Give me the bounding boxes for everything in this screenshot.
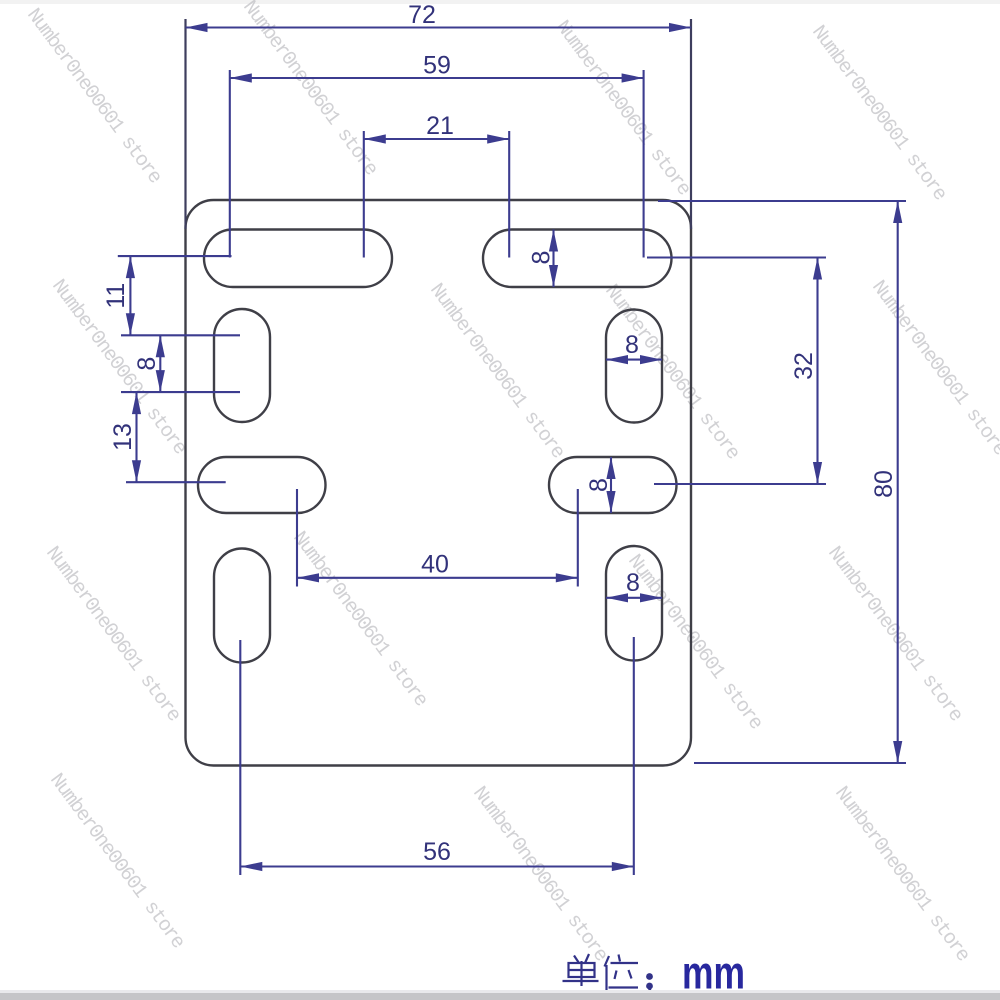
svg-text:8: 8 bbox=[626, 569, 640, 597]
svg-text:59: 59 bbox=[423, 52, 451, 80]
svg-text:32: 32 bbox=[790, 352, 818, 380]
svg-text:72: 72 bbox=[408, 1, 436, 29]
svg-text:13: 13 bbox=[109, 423, 137, 451]
svg-text:21: 21 bbox=[426, 112, 454, 140]
svg-text:8: 8 bbox=[133, 357, 161, 371]
svg-text:40: 40 bbox=[421, 551, 449, 579]
svg-text:8: 8 bbox=[625, 331, 639, 359]
svg-text:80: 80 bbox=[870, 470, 898, 498]
svg-text:11: 11 bbox=[102, 283, 130, 309]
svg-text:8: 8 bbox=[585, 478, 613, 492]
svg-text:56: 56 bbox=[423, 838, 451, 866]
svg-text:8: 8 bbox=[528, 251, 556, 265]
